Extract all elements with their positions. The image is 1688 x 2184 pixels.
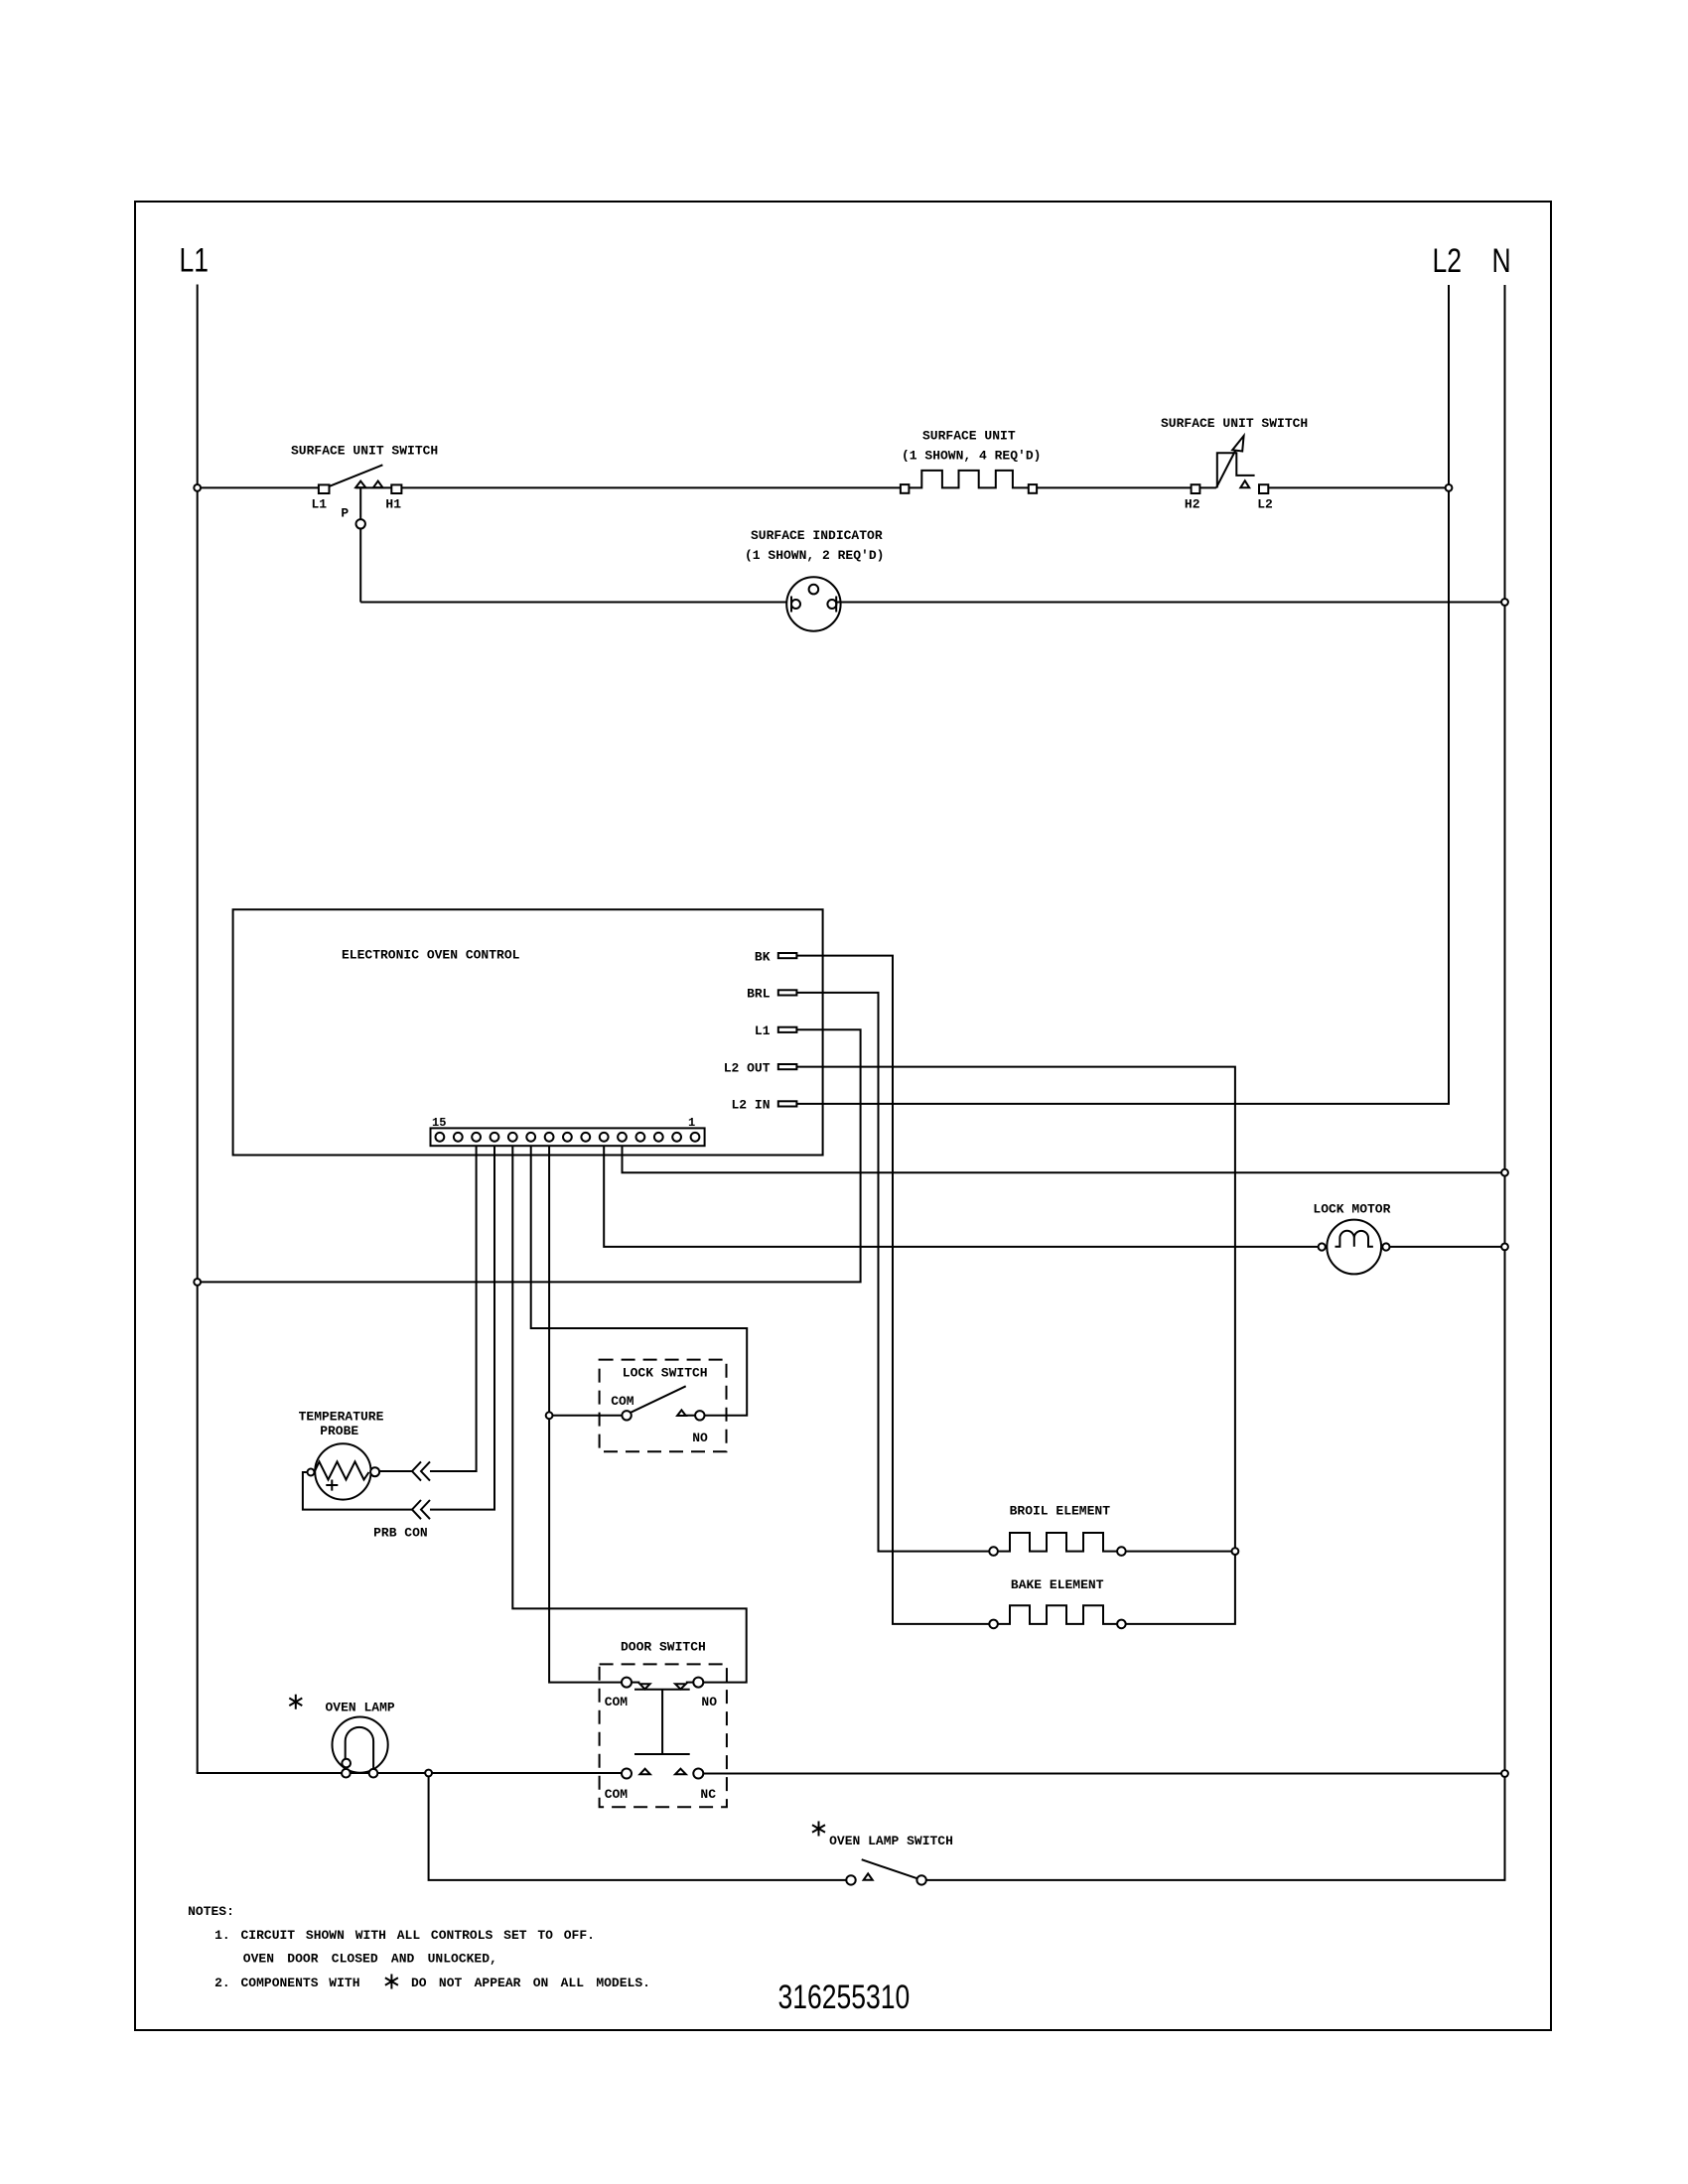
wire pin 3 to temperature probe bbox=[430, 1146, 477, 1471]
wire H2 to blade foot bbox=[1199, 486, 1216, 488]
surface unit switch SUS2 blade arrowhead bbox=[1232, 436, 1243, 452]
temperature probe plus mark bbox=[326, 1480, 338, 1491]
svg-text:NO: NO bbox=[692, 1431, 708, 1445]
node junction N / lock motor wire bbox=[1501, 1244, 1508, 1251]
PRB CON chevrons upper bbox=[412, 1461, 430, 1480]
door switch upper contact triangle 1 bbox=[639, 1684, 649, 1689]
svg-text:DO NOT APPEAR ON ALL MODELS.: DO NOT APPEAR ON ALL MODELS. bbox=[411, 1976, 650, 1990]
wire L1 bus to surface unit switch L1 terminal bbox=[199, 486, 319, 488]
lock switch NO terminal bbox=[695, 1411, 704, 1420]
svg-text:COM: COM bbox=[605, 1787, 629, 1802]
svg-text:LOCK MOTOR: LOCK MOTOR bbox=[1313, 1202, 1390, 1217]
wire door switch NC to N bus bbox=[703, 1773, 1504, 1775]
surface indicator left terminal bbox=[791, 600, 800, 609]
surface unit switch SUS1 contact P triangle bbox=[355, 481, 365, 488]
wire BRL terminal to broil element bbox=[796, 993, 989, 1552]
svg-text:DOOR SWITCH: DOOR SWITCH bbox=[621, 1640, 706, 1655]
door switch plunger bbox=[634, 1690, 690, 1754]
oven lamp asterisk bbox=[289, 1695, 302, 1709]
wire pin 11 to N bus bbox=[623, 1146, 1505, 1172]
broil element right terminal bbox=[1117, 1547, 1126, 1556]
terminal L1 pin bbox=[778, 1027, 797, 1032]
connector pin circles bbox=[436, 1133, 700, 1142]
wire probe left loop to pin 4 wire bbox=[303, 1472, 412, 1510]
svg-text:SURFACE UNIT: SURFACE UNIT bbox=[922, 429, 1016, 444]
surface unit switch SUS2 terminal L2 bbox=[1259, 484, 1268, 493]
svg-text:BROIL ELEMENT: BROIL ELEMENT bbox=[1010, 1503, 1111, 1518]
node junction lamp wire / lamp switch drop bbox=[425, 1770, 432, 1777]
wire pin 6 to lock switch NO bbox=[531, 1146, 748, 1416]
svg-text:316255310: 316255310 bbox=[778, 1979, 911, 2016]
oven lamp switch left terminal bbox=[846, 1875, 855, 1884]
svg-text:H2: H2 bbox=[1185, 497, 1200, 512]
door switch lower NC terminal bbox=[693, 1769, 703, 1779]
node junction N / pin 11 wire bbox=[1501, 1169, 1508, 1176]
broil element left terminal bbox=[989, 1547, 998, 1556]
wire H1 to surface unit bbox=[401, 486, 901, 488]
surface indicator right terminal bbox=[827, 600, 836, 609]
door switch lower contact triangle 2 bbox=[675, 1769, 686, 1775]
svg-text:PRB CON: PRB CON bbox=[373, 1525, 428, 1540]
lock switch blade bbox=[631, 1386, 686, 1413]
wire P tap to indicator bbox=[360, 602, 791, 604]
surface unit switch SUS2 contact triangle bbox=[1240, 480, 1249, 487]
electronic oven control box bbox=[233, 909, 823, 1155]
terminal BRL pin bbox=[778, 990, 797, 995]
wire broil element to L2 OUT drop bbox=[1126, 1551, 1235, 1553]
lock motor left terminal bbox=[1319, 1243, 1326, 1250]
wire lock motor to N bus bbox=[1390, 1246, 1505, 1248]
svg-text:BRL: BRL bbox=[747, 987, 771, 1002]
svg-text:SURFACE UNIT SWITCH: SURFACE UNIT SWITCH bbox=[291, 444, 438, 459]
svg-text:2. COMPONENTS WITH: 2. COMPONENTS WITH bbox=[214, 1976, 359, 1990]
wire P tap lower bbox=[359, 529, 361, 603]
temperature probe resistor bbox=[315, 1461, 369, 1479]
surface unit switch SUS2 blade bbox=[1216, 441, 1241, 488]
oven lamp body bbox=[333, 1717, 388, 1773]
svg-text:L1: L1 bbox=[755, 1024, 771, 1038]
wire pin 7 to door switch COM bbox=[549, 1146, 622, 1682]
oven lamp switch right terminal bbox=[916, 1875, 925, 1884]
surface unit switch SUS2 terminal H2 bbox=[1192, 484, 1200, 493]
bake element left terminal bbox=[989, 1620, 998, 1629]
svg-text:NC: NC bbox=[700, 1787, 716, 1802]
wire lamp switch to N bus bbox=[926, 1879, 1506, 1881]
wire L1 terminal to L1 bus bbox=[201, 1029, 861, 1282]
wire surface unit to switch SUS2 bbox=[1037, 486, 1192, 488]
surface unit switch SUS2 bimetal element bbox=[1217, 453, 1255, 487]
node junction L2 / top wire bbox=[1446, 484, 1453, 491]
wire pin 5 to door switch NO bbox=[512, 1146, 746, 1682]
surface unit switch SUS1 wire under contacts bbox=[355, 486, 391, 488]
svg-text:L2: L2 bbox=[1433, 242, 1463, 280]
wire lamp node down to lamp switch bbox=[429, 1773, 847, 1880]
svg-text:L1: L1 bbox=[312, 497, 328, 512]
svg-text:L2: L2 bbox=[1257, 497, 1273, 512]
svg-text:L2 IN: L2 IN bbox=[732, 1098, 771, 1113]
oven lamp left terminal bbox=[342, 1769, 351, 1778]
wire L2 bus vertical bbox=[1448, 285, 1450, 1103]
wire BK terminal to bake element bbox=[796, 956, 989, 1624]
note 2 asterisk bbox=[385, 1975, 398, 1989]
node junction L1 / top wire bbox=[194, 484, 201, 491]
svg-text:OVEN LAMP SWITCH: OVEN LAMP SWITCH bbox=[829, 1834, 953, 1848]
svg-text:H1: H1 bbox=[385, 497, 401, 512]
svg-text:BK: BK bbox=[755, 949, 771, 964]
door switch upper NO stub bbox=[686, 1682, 694, 1684]
svg-text:COM: COM bbox=[605, 1695, 629, 1709]
svg-text:L1: L1 bbox=[180, 241, 210, 279]
lock switch COM terminal bbox=[622, 1411, 631, 1420]
lock switch dashed enclosure bbox=[600, 1360, 727, 1452]
svg-text:NOTES:: NOTES: bbox=[188, 1904, 234, 1919]
bake element coil bbox=[998, 1605, 1117, 1624]
surface indicator top pin bbox=[809, 585, 819, 595]
oven lamp left terminal upper bbox=[342, 1759, 351, 1768]
surface unit switch SUS1 terminal L1 bbox=[319, 484, 330, 493]
svg-text:N: N bbox=[1492, 242, 1511, 280]
svg-text:TEMPERATURE: TEMPERATURE bbox=[299, 1410, 384, 1425]
wire pin 4 to probe return bbox=[430, 1146, 494, 1509]
wire indicator to N bus bbox=[836, 602, 1504, 604]
lock switch contact wire stub bbox=[677, 1415, 695, 1417]
svg-text:BAKE ELEMENT: BAKE ELEMENT bbox=[1011, 1577, 1104, 1592]
surface unit switch SUS1 blade bbox=[329, 465, 383, 486]
lock switch NO contact triangle bbox=[677, 1410, 686, 1416]
door switch upper COM stub bbox=[632, 1682, 639, 1684]
oven lamp switch blade bbox=[862, 1859, 920, 1879]
node junction L2 OUT / broil wire bbox=[1232, 1548, 1239, 1555]
wire P tap upper bbox=[359, 487, 361, 519]
node junction N / indicator wire bbox=[1501, 599, 1508, 606]
broil element coil bbox=[998, 1533, 1117, 1552]
oven lamp switch contact triangle bbox=[864, 1873, 873, 1879]
svg-text:P: P bbox=[341, 506, 349, 521]
wire L2 IN terminal to L2 bus bbox=[796, 1102, 1449, 1105]
node junction pin7 wire / lock switch COM wire bbox=[546, 1412, 553, 1419]
svg-text:LOCK SWITCH: LOCK SWITCH bbox=[623, 1366, 708, 1381]
wire lock switch COM tap bbox=[549, 1415, 622, 1417]
surface unit switch SUS1 contact H1 triangle bbox=[373, 481, 382, 488]
surface unit terminal right bbox=[1029, 484, 1037, 493]
node junction N / NC wire bbox=[1501, 1770, 1508, 1777]
surface indicator left terminal tick bbox=[790, 597, 792, 613]
door switch upper contact triangle 2 bbox=[675, 1684, 686, 1689]
svg-text:OVEN LAMP: OVEN LAMP bbox=[326, 1700, 395, 1714]
lock motor winding m bbox=[1336, 1231, 1373, 1247]
terminal BK pin bbox=[778, 953, 797, 958]
svg-text:L2 OUT: L2 OUT bbox=[724, 1060, 771, 1075]
svg-text:SURFACE UNIT SWITCH: SURFACE UNIT SWITCH bbox=[1161, 416, 1308, 431]
oven lamp filament bbox=[346, 1727, 373, 1771]
connector header block bbox=[431, 1128, 705, 1146]
svg-text:1. CIRCUIT SHOWN WITH ALL CON: 1. CIRCUIT SHOWN WITH ALL CONTROLS SET T… bbox=[214, 1928, 595, 1943]
lock motor body bbox=[1327, 1220, 1381, 1275]
terminal L2 OUT pin bbox=[778, 1064, 797, 1069]
svg-text:1: 1 bbox=[688, 1116, 695, 1130]
door switch dashed enclosure bbox=[600, 1664, 727, 1807]
surface unit switch SUS1 terminal H1 bbox=[391, 484, 401, 493]
wire L2 OUT terminal to elements bbox=[796, 1067, 1235, 1624]
door switch upper NO terminal bbox=[693, 1678, 703, 1688]
oven lamp right terminal bbox=[369, 1769, 378, 1778]
terminal P circle bbox=[356, 519, 365, 528]
surface indicator right terminal tick bbox=[835, 597, 837, 613]
wire L1 bus vertical bbox=[197, 285, 199, 1774]
svg-text:OVEN DOOR CLOSED AND UNLOCKED,: OVEN DOOR CLOSED AND UNLOCKED, bbox=[243, 1952, 497, 1967]
temperature probe right terminal bbox=[370, 1467, 379, 1476]
terminal L2 IN pin bbox=[778, 1101, 797, 1106]
surface unit heating element bbox=[909, 471, 1028, 488]
wire N bus vertical bbox=[1504, 285, 1506, 1880]
node junction L1 / EOC L1 wire bbox=[194, 1279, 201, 1286]
svg-text:PROBE: PROBE bbox=[320, 1424, 358, 1438]
door switch upper COM terminal bbox=[622, 1678, 632, 1688]
door switch lower contact triangle 1 bbox=[639, 1769, 649, 1775]
svg-text:15: 15 bbox=[432, 1116, 446, 1130]
PRB CON chevrons lower bbox=[412, 1500, 430, 1519]
svg-text:(1 SHOWN, 4 REQ'D): (1 SHOWN, 4 REQ'D) bbox=[902, 449, 1041, 464]
door switch upper blade bar bbox=[634, 1689, 690, 1691]
temperature probe left terminal bbox=[308, 1469, 315, 1476]
surface indicator lamp body bbox=[786, 577, 840, 630]
wire L2 terminal to L2 bus bbox=[1268, 486, 1449, 488]
svg-text:ELECTRONIC OVEN CONTROL: ELECTRONIC OVEN CONTROL bbox=[342, 948, 520, 963]
svg-text:NO: NO bbox=[701, 1695, 717, 1709]
svg-text:COM: COM bbox=[611, 1394, 634, 1409]
wire pin 10 to lock motor bbox=[604, 1146, 1318, 1247]
temperature probe body bbox=[315, 1443, 370, 1499]
lock motor right terminal bbox=[1382, 1243, 1389, 1250]
svg-text:(1 SHOWN, 2 REQ'D): (1 SHOWN, 2 REQ'D) bbox=[745, 548, 884, 563]
oven lamp switch asterisk bbox=[812, 1822, 825, 1837]
wire probe right to pin 3 wire bbox=[379, 1470, 412, 1472]
door switch lower COM terminal bbox=[622, 1769, 632, 1779]
wire oven lamp to door switch lower COM bbox=[197, 1772, 622, 1774]
bake element right terminal bbox=[1117, 1620, 1126, 1629]
surface unit terminal left bbox=[901, 484, 910, 493]
svg-text:SURFACE INDICATOR: SURFACE INDICATOR bbox=[751, 528, 883, 543]
